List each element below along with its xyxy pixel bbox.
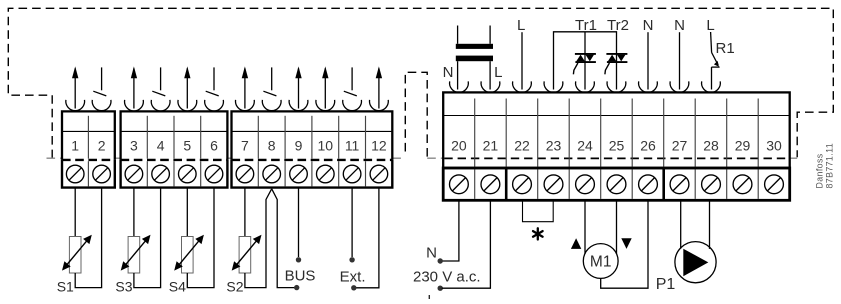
terminal 24 screw bbox=[576, 175, 595, 194]
terminal 25 screw bbox=[607, 175, 626, 194]
svg-text:1: 1 bbox=[71, 137, 79, 153]
wire terminal 24 to motor M1 bbox=[584, 200, 586, 254]
svg-text:10: 10 bbox=[318, 137, 334, 153]
wire terminal 3 to sensor S3 bbox=[133, 188, 135, 237]
svg-text:Tr1: Tr1 bbox=[575, 17, 597, 34]
up-arrow above terminal 7 bbox=[244, 68, 246, 108]
dashed boundary line through terminal blocks bbox=[47, 157, 63, 159]
svg-text:L: L bbox=[517, 17, 525, 34]
pump P1 bbox=[675, 242, 716, 283]
svg-text:2: 2 bbox=[98, 137, 106, 153]
terminal 2 wire-entry cup bbox=[92, 100, 111, 111]
terminal 29 screw bbox=[733, 175, 752, 194]
svg-text:S3: S3 bbox=[115, 279, 132, 295]
terminal 21 wire-entry cup bbox=[481, 81, 500, 92]
terminal 30 screw bbox=[765, 175, 784, 194]
up-arrow above terminal 3 bbox=[133, 68, 135, 108]
terminal 21 screw bbox=[481, 175, 500, 194]
svg-text:5: 5 bbox=[183, 137, 191, 153]
terminal 3 screw bbox=[125, 165, 143, 183]
wire S3 return to terminal 4 bbox=[134, 188, 161, 288]
terminal 23 screw bbox=[544, 175, 563, 194]
wire terminal 9 to BUS bbox=[298, 188, 300, 257]
wire motor M1 to terminal 26 bbox=[601, 200, 648, 288]
svg-text:4: 4 bbox=[157, 137, 165, 153]
terminal 26 screw bbox=[639, 175, 658, 194]
terminal 6 wire-entry cup bbox=[205, 100, 224, 111]
Ext lower node bbox=[351, 285, 356, 290]
svg-text:22: 22 bbox=[514, 137, 530, 153]
sensor S3 bbox=[128, 237, 140, 274]
svg-text:230 V a.c.: 230 V a.c. bbox=[413, 269, 481, 286]
switch symbol above terminal 8 bbox=[271, 67, 273, 90]
terminal 26 wire-entry cup bbox=[639, 81, 658, 92]
Ext upper node bbox=[349, 257, 354, 262]
svg-text:23: 23 bbox=[546, 137, 562, 153]
N supply node bbox=[438, 258, 443, 263]
svg-text:7: 7 bbox=[241, 137, 249, 153]
svg-text:L: L bbox=[427, 292, 435, 299]
screw terminal box 3-6 bbox=[121, 160, 228, 188]
screw terminal box 1-2 bbox=[62, 160, 115, 188]
terminal 25 wire-entry cup bbox=[607, 81, 626, 92]
svg-text:6: 6 bbox=[210, 137, 218, 153]
wire N to terminal 26 bbox=[647, 32, 649, 89]
transformer T (mains supply) bbox=[457, 26, 459, 44]
wire terminal 27 to pump P1 bbox=[680, 200, 682, 248]
svg-text:R1: R1 bbox=[716, 40, 735, 57]
svg-text:9: 9 bbox=[295, 137, 303, 153]
terminal 20 wire-entry cup bbox=[450, 81, 469, 92]
wire terminal 24 branch bbox=[584, 32, 586, 90]
terminal 7 wire-entry cup bbox=[236, 100, 255, 111]
close direction arrow bbox=[621, 238, 631, 249]
terminal 28 wire-entry cup bbox=[702, 81, 721, 92]
sensor S1 bbox=[69, 237, 81, 274]
switch symbol above terminal 6 bbox=[213, 67, 215, 90]
wire terminal 5 to sensor S4 bbox=[186, 188, 188, 237]
svg-text:BUS: BUS bbox=[285, 268, 316, 285]
wire L to terminal 22 bbox=[521, 32, 523, 89]
svg-text:29: 29 bbox=[735, 137, 751, 153]
terminal 5 screw bbox=[179, 165, 197, 183]
up-arrow above terminal 5 bbox=[186, 68, 188, 108]
terminal 10 screw bbox=[317, 165, 335, 183]
svg-text:24: 24 bbox=[577, 137, 593, 153]
motor M1 bbox=[583, 244, 618, 279]
svg-text:L: L bbox=[706, 17, 714, 34]
svg-text:27: 27 bbox=[672, 137, 688, 153]
switch symbol above terminal 11 bbox=[351, 67, 353, 90]
up-arrow above terminal 10 bbox=[324, 68, 326, 108]
svg-text:11: 11 bbox=[345, 137, 360, 153]
svg-text:S2: S2 bbox=[226, 279, 243, 295]
svg-text:12: 12 bbox=[371, 137, 387, 153]
terminal 4 screw bbox=[152, 165, 170, 183]
asterisk footnote mark bbox=[537, 228, 539, 239]
svg-text:3: 3 bbox=[130, 137, 138, 153]
wire terminal 8 to BUS (right branch) bbox=[272, 189, 295, 288]
svg-text:28: 28 bbox=[703, 137, 719, 153]
bracket terminals 22-23 bbox=[523, 200, 554, 221]
wire S1 return to terminal 2 bbox=[75, 188, 101, 288]
terminal block 7-12 upper box bbox=[232, 111, 393, 159]
svg-text:M1: M1 bbox=[590, 253, 612, 270]
terminal 9 screw bbox=[290, 165, 308, 183]
svg-text:S1: S1 bbox=[57, 279, 74, 295]
terminal 3 wire-entry cup bbox=[125, 100, 144, 111]
terminal 1 screw bbox=[66, 165, 84, 183]
triac Tr1 bbox=[575, 53, 596, 55]
controller housing dashed outline bbox=[8, 8, 833, 158]
terminal block 1-2 upper box bbox=[62, 111, 115, 159]
svg-text:L: L bbox=[494, 64, 502, 81]
wire S2 return to terminal 8 (left branch) bbox=[245, 189, 272, 288]
terminal 5 wire-entry cup bbox=[178, 100, 197, 111]
svg-text:26: 26 bbox=[640, 137, 656, 153]
wire terminal 20 to N supply bbox=[442, 200, 459, 261]
screw terminal box 20-30 bbox=[443, 168, 790, 200]
terminal 12 wire-entry cup bbox=[370, 100, 389, 111]
wire rail from terminal 23 to triacs bbox=[554, 32, 617, 90]
L supply node bbox=[438, 286, 443, 291]
terminal 28 screw bbox=[702, 175, 721, 194]
svg-text:Ext.: Ext. bbox=[340, 268, 366, 285]
terminal 7 screw bbox=[236, 165, 254, 183]
terminal 27 wire-entry cup bbox=[670, 81, 689, 92]
up-arrow above terminal 9 bbox=[298, 68, 300, 108]
svg-text:30: 30 bbox=[766, 137, 782, 153]
sensor S4 bbox=[182, 237, 194, 274]
wire terminal 1 to sensor S1 bbox=[74, 188, 76, 237]
terminal block 20-30 upper box bbox=[443, 92, 790, 168]
wire L supply to terminal 21 bbox=[442, 200, 491, 288]
svg-text:P1: P1 bbox=[656, 276, 676, 293]
switch symbol above terminal 2 bbox=[101, 67, 103, 90]
svg-text:N: N bbox=[443, 64, 454, 81]
terminal 8 screw bbox=[263, 165, 281, 183]
svg-text:N: N bbox=[674, 17, 685, 34]
dashed outline detour between terminal groups bbox=[405, 72, 427, 158]
svg-text:Danfoss: Danfoss bbox=[815, 153, 825, 188]
terminal 2 screw bbox=[93, 165, 111, 183]
relay contact R1 bbox=[711, 32, 712, 53]
svg-text:25: 25 bbox=[609, 137, 625, 153]
terminal 11 screw bbox=[343, 165, 361, 183]
BUS lower node bbox=[294, 285, 299, 290]
svg-text:21: 21 bbox=[483, 137, 499, 153]
terminal 22 screw bbox=[513, 175, 532, 194]
svg-text:S4: S4 bbox=[169, 279, 186, 295]
terminal 20 screw bbox=[450, 175, 469, 194]
wire S4 return to terminal 6 bbox=[187, 188, 214, 288]
terminal 11 wire-entry cup bbox=[343, 100, 362, 111]
terminal 23 wire-entry cup bbox=[544, 81, 563, 92]
wire transformer to terminal 21 bbox=[489, 61, 491, 89]
sensor S2 bbox=[239, 237, 251, 274]
terminal block 3-6 upper box bbox=[121, 111, 228, 159]
BUS upper node bbox=[296, 257, 301, 262]
open direction arrow bbox=[571, 238, 581, 249]
svg-text:N: N bbox=[643, 17, 654, 34]
wire terminal 7 to sensor S2 bbox=[244, 188, 246, 237]
up-arrow above terminal 1 bbox=[74, 68, 76, 108]
terminal 8 wire-entry cup bbox=[262, 100, 281, 111]
wire terminal 12 to Ext lower node bbox=[356, 188, 379, 288]
screw terminal box 7-12 bbox=[232, 160, 393, 188]
terminal 1 wire-entry cup bbox=[66, 100, 85, 111]
svg-text:8: 8 bbox=[268, 137, 276, 153]
terminal 9 wire-entry cup bbox=[289, 100, 308, 111]
wire terminal 11 to Ext bbox=[351, 188, 353, 257]
terminal 22 wire-entry cup bbox=[513, 81, 532, 92]
terminal 24 wire-entry cup bbox=[576, 81, 595, 92]
triac Tr2 bbox=[606, 53, 627, 55]
thick divider between terminals 21 and 22 bbox=[505, 168, 508, 200]
up-arrow above terminal 12 bbox=[378, 68, 380, 108]
wire R1 to terminal 28 bbox=[711, 67, 713, 89]
switch symbol above terminal 4 bbox=[160, 67, 162, 90]
terminal 4 wire-entry cup bbox=[151, 100, 170, 111]
svg-text:Tr2: Tr2 bbox=[607, 17, 629, 34]
terminal 10 wire-entry cup bbox=[316, 100, 335, 111]
svg-text:N: N bbox=[426, 244, 437, 261]
svg-text:20: 20 bbox=[451, 137, 467, 153]
terminal 27 screw bbox=[670, 175, 689, 194]
wire terminal 28 to pump P1 bbox=[709, 200, 711, 249]
wire terminal 25 to motor M1 bbox=[616, 200, 618, 254]
wire transformer to terminal 20 bbox=[457, 61, 459, 89]
svg-text:87B771.11: 87B771.11 bbox=[825, 143, 835, 189]
thick divider between terminals 26 and 27 bbox=[662, 168, 665, 200]
terminal 6 screw bbox=[205, 165, 223, 183]
wire N to terminal 27 bbox=[679, 32, 681, 89]
terminal 12 screw bbox=[370, 165, 388, 183]
